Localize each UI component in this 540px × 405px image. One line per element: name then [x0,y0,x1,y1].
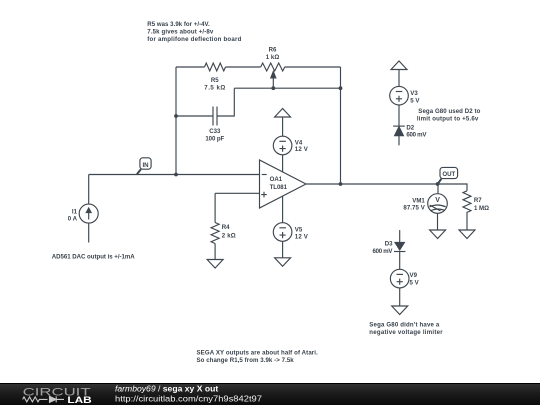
svg-text:100 pF: 100 pF [205,136,224,143]
wire V3 to D2 [398,105,400,126]
diode D2 [393,125,405,127]
op-amp OA1 [260,160,307,208]
svg-text:12 V: 12 V [295,146,309,153]
svg-text:87.75 V: 87.75 V [403,205,425,212]
resistor R5 [205,63,226,71]
svg-text:R4: R4 [222,224,230,231]
ground V5 [275,258,291,267]
svg-text:V9: V9 [410,272,418,279]
wire C33 left lead [176,115,213,117]
voltage source V3 [390,86,409,105]
svg-text:V: V [435,197,440,204]
junction wiper rail to vertical [339,86,343,90]
wire C33 right lead up [217,88,234,116]
svg-text:I1: I1 [72,209,78,216]
wire op-amp output [306,183,438,185]
svg-text:R5: R5 [211,77,219,84]
wire VM1 bottom lead [437,213,439,230]
wire V3 top [398,70,400,87]
svg-text:TL081: TL081 [270,184,288,191]
junction C33 tap [174,114,178,118]
svg-text:OUT: OUT [442,171,455,178]
junction wiper [271,86,275,90]
voltage source V5 [273,223,292,242]
svg-text:600 mV: 600 mV [373,248,394,255]
wire op-amp V+ pin [282,155,284,173]
svg-text:farmboy69 / sega xy X out: farmboy69 / sega xy X out [115,384,218,394]
svg-text:D3: D3 [385,240,393,247]
wire left vertical feedback [175,67,177,175]
svg-text:5 V: 5 V [410,98,420,105]
wire D2 stub [398,136,400,146]
wire D3 to V9 [399,252,401,270]
wire wiper rail [234,87,340,89]
R6 wiper arrow [272,78,274,89]
svg-text:Sega G80 used D2 to: Sega G80 used D2 to [418,108,480,115]
wire top feedback rail left lead [176,66,205,68]
wire R4 top lead [214,193,216,222]
wire noninverting input [215,192,259,194]
resistor R4 [211,223,219,244]
voltage source V9 [390,269,409,288]
ground above V3 [391,61,407,70]
diode D3 [395,243,404,250]
svg-text:5 V: 5 V [410,280,420,287]
svg-text:http://circuitlab.com/cny7h9s8: http://circuitlab.com/cny7h9s842t97 [115,393,262,403]
current source I1 bottom lead [88,223,90,242]
svg-text:V5: V5 [295,226,303,233]
wire inverting input [89,174,260,176]
svg-text:SEGA XY outputs are about half: SEGA XY outputs are about half of Atari. [197,350,319,357]
current source I1 [79,204,98,223]
junction input node [174,173,178,177]
svg-text:V3: V3 [410,90,418,97]
svg-text:OA1: OA1 [270,176,283,183]
voltage source V4 [273,136,292,155]
wire right vertical feedback [340,67,342,184]
svg-text:limit output to +5.6v: limit output to +5.6v [417,115,479,122]
svg-text:LAB: LAB [67,395,91,405]
node IN flag [137,169,141,174]
svg-text:for amplifone deflection board: for amplifone deflection board [147,36,241,43]
capacitor C33 [212,107,214,126]
svg-text:Sega G80 didn't have a: Sega G80 didn't have a [369,322,440,329]
wire V5 to ground [282,241,284,257]
ground V9 [392,306,408,315]
svg-text:7.5 kΩ: 7.5 kΩ [204,85,225,92]
svg-text:7.5k gives about +/-8v: 7.5k gives about +/-8v [147,29,214,36]
svg-text:R5 was 3.9k for +/-4V.: R5 was 3.9k for +/-4V. [147,21,210,28]
svg-text:12 V: 12 V [295,233,309,240]
wire R4 bottom lead [214,244,216,260]
current source I1 top lead [88,175,90,205]
resistor R7 [463,191,471,216]
wire D3 stub [399,230,401,242]
wire between R5 and R6 [226,66,261,68]
CircuitLab logo resistor-diode glyph [23,396,64,402]
junction VM1 tap [436,182,440,186]
ground above V4 [275,109,291,118]
node OUT flag [438,179,442,184]
svg-text:D2: D2 [406,125,414,132]
svg-text:AD561 DAC output is +/-1mA: AD561 DAC output is +/-1mA [52,253,136,260]
svg-text:1 MΩ: 1 MΩ [474,205,489,212]
potentiometer R6 [261,63,285,71]
svg-text:600 mV: 600 mV [406,132,427,139]
svg-text:negative voltage limiter: negative voltage limiter [369,329,443,336]
ground R7 [459,230,475,239]
junction output node [339,182,343,186]
wire VM1 top lead [437,184,439,193]
wire V4 to ground [282,117,284,136]
svg-text:So change R1,5 from 3.9k -> 7.: So change R1,5 from 3.9k -> 7.5k [197,357,295,364]
wire R7 bottom lead [466,216,468,230]
svg-text:2 kΩ: 2 kΩ [222,232,236,239]
voltmeter VM1 [428,194,448,214]
svg-text:R7: R7 [474,197,482,204]
ground R4 [207,260,223,269]
ground VM1 [430,230,446,239]
svg-text:VM1: VM1 [412,197,425,204]
wire output to R7 [438,184,467,191]
svg-text:C33: C33 [209,128,221,135]
wire top rail right lead [285,66,341,68]
svg-text:1 kΩ: 1 kΩ [266,54,280,61]
svg-text:R6: R6 [269,47,277,54]
wire op-amp V- pin [282,196,284,223]
svg-text:IN: IN [142,162,148,169]
svg-text:0 A: 0 A [68,216,78,223]
wire V9 to ground [399,288,401,306]
